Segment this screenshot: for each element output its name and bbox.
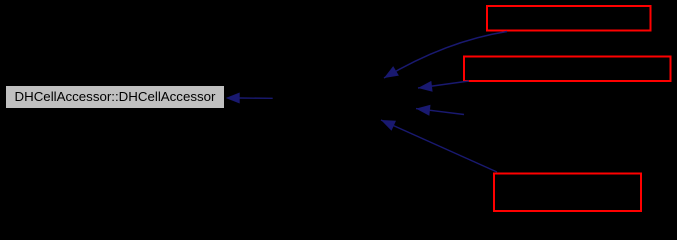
svg-text:DHCellAccessor::DHCellAccessor: DHCellAccessor::DHCellAccessor [15,89,217,104]
wire edge E0 to gray node [226,93,273,104]
node box middle-right (red) [464,57,671,82]
wire edge E2 from middle red box [418,81,469,92]
node DHCellAccessor::DHCellAccessor (current, gray) [6,86,224,108]
node box top-right (red) [487,6,651,31]
wire edge E4 from bottom red box [381,120,497,172]
node box bottom-right (red) [494,174,641,212]
wire edge E1 from top red box [384,32,507,79]
wire edge E3 from hidden node [416,105,464,116]
